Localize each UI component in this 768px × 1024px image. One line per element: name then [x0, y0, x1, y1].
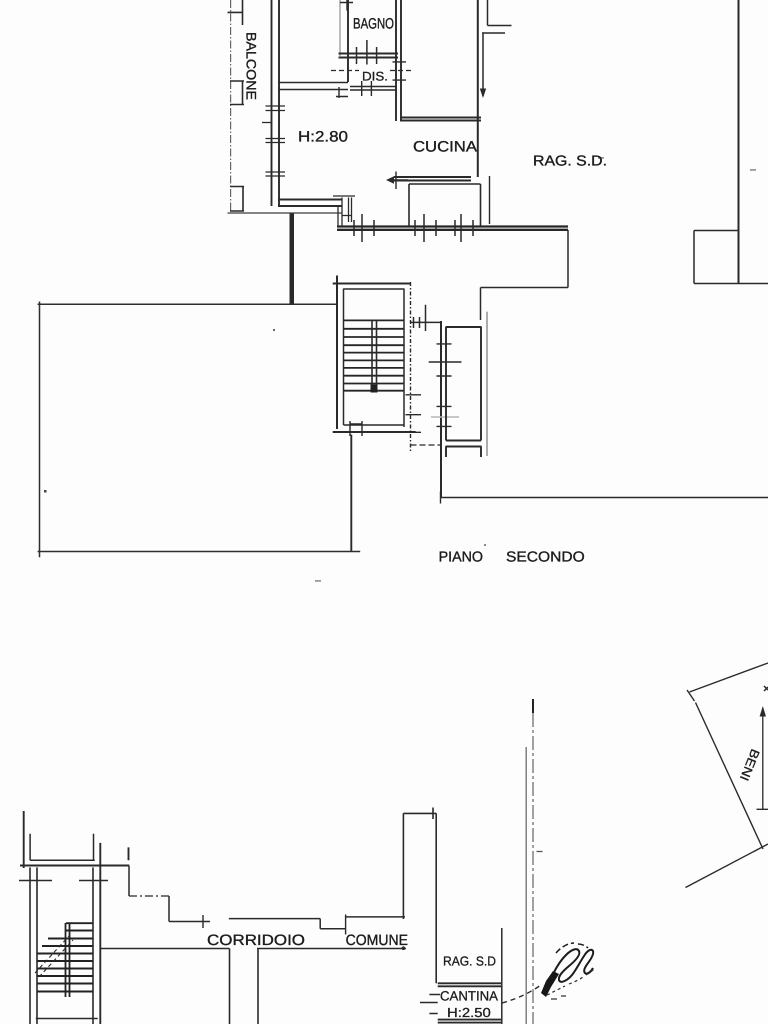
- parcel edge cap: [687, 690, 695, 701]
- landing dash link: [411, 444, 442, 446]
- shaft faint shelf: [431, 416, 459, 418]
- corner arrowhead: [480, 89, 486, 99]
- property line dashdot: [532, 699, 534, 713]
- cellar stair treads: [37, 923, 93, 991]
- specks: [44, 490, 47, 493]
- dashed wall ticks: [406, 395, 422, 433]
- label RAG. S.D.: [533, 154, 607, 170]
- cantina box bottom: [438, 1020, 502, 1023]
- label BENI: [737, 747, 762, 783]
- hallway door ticks: [362, 81, 372, 96]
- label H:2.50: [447, 1005, 491, 1020]
- apartment bottom wall: [337, 227, 568, 230]
- svg-text:BENI: BENI: [737, 747, 762, 783]
- stairwell door tick: [350, 421, 362, 436]
- cellar stair head inner: [30, 834, 95, 860]
- label H:2.80: [298, 129, 348, 146]
- wall step: [336, 87, 348, 98]
- shaft wall ticks: [429, 344, 462, 427]
- corridor floor line: [101, 948, 406, 950]
- cantina box top: [438, 983, 502, 986]
- living room bottom wall: [278, 200, 342, 207]
- small dash mark: [537, 851, 543, 853]
- balcony low window: [230, 187, 244, 212]
- svg-text:CUCINA: CUCINA: [413, 139, 477, 156]
- clipped letter: [764, 686, 768, 691]
- shaft thin edge: [486, 312, 488, 456]
- cellar stair head outer wall: [20, 865, 129, 867]
- svg-text:CANTINA: CANTINA: [440, 989, 498, 1004]
- stair treads: [344, 320, 405, 390]
- cellar stair wall ticks: [19, 880, 108, 882]
- label DIS: [362, 70, 388, 84]
- label BALCONE: [244, 32, 259, 100]
- svg-text:BALCONE: BALCONE: [244, 32, 259, 100]
- shaft bracket: [446, 447, 482, 458]
- cantina right wall: [501, 928, 503, 1024]
- balcony floor edge: [228, 212, 343, 214]
- kitchen side tick: [489, 176, 491, 224]
- stairwell dashed right wall: [410, 282, 412, 452]
- cellar stair head left wall: [23, 811, 25, 868]
- label RAG. S.D lower: [443, 954, 496, 969]
- right stub room: [694, 231, 768, 284]
- label CORRIDOIO: [207, 932, 305, 949]
- lower boundary line: [441, 492, 768, 504]
- wall below stairwell: [350, 435, 352, 552]
- cellar upper-right wall: [403, 808, 436, 984]
- dashed line hallway: [331, 70, 412, 72]
- label CANTINA: [440, 989, 498, 1004]
- svg-text:PIANO: PIANO: [439, 550, 483, 566]
- living room door step: [333, 196, 355, 227]
- cellar stair left wall pair: [30, 867, 37, 1024]
- svg-text:RAG. S.D: RAG. S.D: [443, 954, 496, 969]
- stairwell left wall: [336, 276, 338, 430]
- kitchen counter: [409, 184, 481, 226]
- svg-text:RAG. S.D.: RAG. S.D.: [533, 154, 607, 170]
- kitchen right wall: [477, 0, 479, 177]
- corridor boundary ticks: [203, 915, 346, 935]
- stairwell inner wall: [344, 289, 405, 428]
- cellar stair stringer: [66, 923, 70, 997]
- svg-text:CORRIDOIO: CORRIDOIO: [207, 932, 305, 949]
- svg-text:DIS.: DIS.: [362, 70, 388, 84]
- cantina left ticks: [420, 995, 440, 1014]
- shaft top link: [411, 305, 441, 331]
- cellar stair right jamb: [100, 843, 128, 1024]
- corridor door jambs: [230, 949, 259, 1024]
- left wall ticks: [262, 106, 285, 176]
- bathroom right wall ticks: [393, 62, 407, 80]
- cellar stair bottom: [36, 1018, 98, 1020]
- right boundary wall: [738, 0, 740, 284]
- stairwell outer top wall: [333, 283, 410, 285]
- stair cut line: [35, 936, 73, 977]
- shaft wall: [440, 321, 442, 498]
- stairwell bottom walls: [344, 424, 405, 426]
- parcel edge bottom: [686, 844, 768, 888]
- kitchen top wall: [400, 118, 481, 121]
- living room top wall: [278, 83, 348, 90]
- left wall: [272, 0, 280, 206]
- signature scribble: [549, 949, 593, 984]
- entry corner: [481, 288, 569, 321]
- bathroom bottom wall: [339, 54, 399, 58]
- property line grey: [525, 747, 527, 1024]
- svg-text:H:2.80: H:2.80: [298, 129, 348, 146]
- bathroom right wall: [396, 0, 401, 121]
- svg-text:H:2.50: H:2.50: [447, 1005, 491, 1020]
- svg-text:BAGNO: BAGNO: [353, 16, 394, 33]
- kitchen door arrow: [390, 172, 408, 190]
- kitchen top corner: [488, 0, 512, 26]
- kitchen inner corner: [482, 33, 505, 96]
- leader dashes: [502, 985, 541, 1003]
- corridor upper boundary: [129, 866, 405, 929]
- parcel edge top: [690, 663, 768, 692]
- shaft box: [446, 327, 482, 441]
- label BAGNO: [353, 16, 394, 33]
- hallway bottom wall: [350, 87, 397, 91]
- bathroom left wall: [339, 0, 341, 56]
- label PIANO SECONDO: [439, 550, 483, 566]
- stair stringer: [372, 320, 377, 392]
- label CUCINA: [413, 139, 477, 156]
- label COMUNE: [346, 932, 408, 949]
- balcony mid window: [230, 81, 244, 105]
- bathroom top tick: [340, 0, 353, 11]
- bathroom window ticks: [357, 40, 377, 65]
- svg-text:COMUNE: COMUNE: [346, 932, 408, 949]
- terrace outline: [38, 302, 361, 558]
- balcony top window: [228, 0, 244, 25]
- bottom wall window ticks: [354, 214, 473, 242]
- dimension arrow: [757, 712, 768, 809]
- balcony railing: [230, 0, 232, 213]
- svg-text:SECONDO: SECONDO: [506, 550, 585, 566]
- kitchen bottom wall: [394, 177, 471, 181]
- entry wall: [567, 230, 569, 288]
- cellar stair right wall pair: [92, 867, 94, 1024]
- party wall pier: [290, 214, 295, 305]
- parcel edge long: [696, 703, 764, 850]
